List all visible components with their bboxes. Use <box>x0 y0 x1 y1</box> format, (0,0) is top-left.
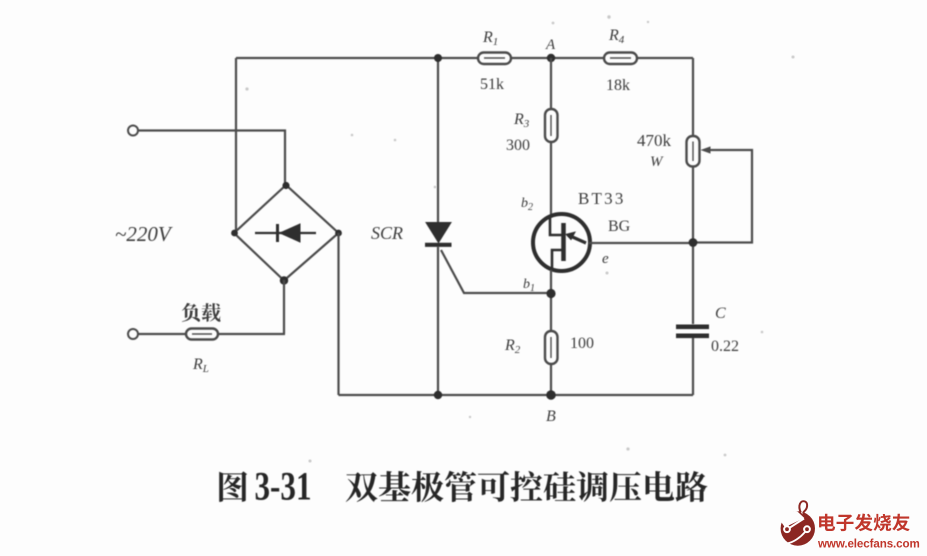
wire C to bottom rail <box>692 338 694 395</box>
wire R2 to bottom rail <box>550 364 552 395</box>
wire R3 to UJT b2 <box>550 142 552 215</box>
node b1 gate junction <box>546 289 555 298</box>
wire UJT b1 down <box>550 270 552 331</box>
resistor R4 <box>604 53 637 65</box>
wire left vertical to bridge <box>235 58 237 233</box>
node bridge left vertex <box>231 230 238 237</box>
svg-text:W: W <box>650 154 664 170</box>
transistor UJT BT33 <box>533 214 590 271</box>
scan speckles <box>245 15 794 462</box>
svg-text:100: 100 <box>570 335 594 352</box>
wire W bottom to C node <box>692 167 694 325</box>
svg-text:A: A <box>545 37 556 53</box>
svg-text:0.22: 0.22 <box>711 338 739 355</box>
node B junction <box>546 390 556 400</box>
svg-text:www.elecfans.com: www.elecfans.com <box>817 538 920 551</box>
node bridge right vertex <box>335 230 342 237</box>
wire lower AC lead left <box>139 333 187 335</box>
terminal lower AC input <box>128 329 138 339</box>
terminal upper AC input <box>128 126 138 136</box>
caption 图 3-31 双基极管可控硅调压电路 <box>219 471 247 502</box>
potentiometer W 470k <box>687 136 700 167</box>
svg-text:3-31: 3-31 <box>255 464 312 509</box>
wire bridge bottom to load <box>283 280 285 334</box>
wire SCR gate <box>441 250 551 293</box>
diode D1 inside bridge <box>255 224 316 242</box>
node bridge top vertex <box>282 182 289 189</box>
svg-text:e: e <box>602 251 609 267</box>
logo text 电子发烧友 <box>819 514 835 531</box>
wire UJT emitter to C node <box>589 242 693 244</box>
capacitor C <box>676 325 709 339</box>
wire node A down to R3 <box>550 58 552 109</box>
resistor R3 <box>545 109 558 142</box>
svg-text:470k: 470k <box>637 131 672 150</box>
wire lower AC lead right <box>218 333 285 335</box>
node bridge bottom vertex <box>280 276 288 284</box>
thyristor SCR <box>437 58 439 395</box>
wire top rail corner down to W <box>692 58 694 136</box>
svg-text:51k: 51k <box>480 76 504 93</box>
wire W wiper loop <box>697 150 752 243</box>
node emitter wiper junction <box>689 238 698 247</box>
node SCR cathode on bottom rail <box>434 391 442 399</box>
node SCR anode on top rail <box>434 54 442 62</box>
node A junction <box>547 54 555 62</box>
svg-text:C: C <box>715 305 726 322</box>
wire bridge right vertex down <box>337 233 339 395</box>
bridge rectifier diamond <box>234 185 339 281</box>
logo elecfans icon <box>781 501 815 546</box>
svg-text:BT33: BT33 <box>578 189 626 208</box>
wire bottom rail <box>339 394 694 396</box>
resistor R2 <box>545 331 558 364</box>
svg-text:~220V: ~220V <box>115 222 173 246</box>
wire upper AC lead <box>139 131 286 186</box>
resistor RL load <box>186 329 218 340</box>
resistor R1 <box>478 53 511 65</box>
svg-text:300: 300 <box>506 137 530 154</box>
wire top rail <box>236 57 693 59</box>
svg-text:18k: 18k <box>606 77 630 94</box>
svg-text:B: B <box>546 408 556 425</box>
svg-text:SCR: SCR <box>371 223 403 243</box>
svg-text:BG: BG <box>608 218 631 235</box>
label 负载 load <box>182 303 200 322</box>
